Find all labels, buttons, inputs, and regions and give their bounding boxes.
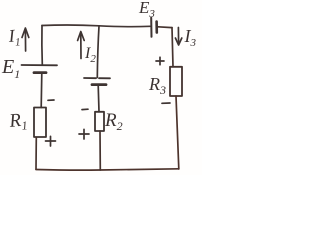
svg-text:E1: E1 <box>1 56 20 81</box>
svg-text:I2: I2 <box>84 45 96 65</box>
svg-text:R1: R1 <box>7 109 28 134</box>
svg-text:E3: E3 <box>138 0 155 20</box>
svg-text:R2: R2 <box>104 110 123 133</box>
svg-text:R3: R3 <box>148 74 166 97</box>
svg-text:I1: I1 <box>7 25 21 49</box>
svg-text:I3: I3 <box>184 26 197 49</box>
